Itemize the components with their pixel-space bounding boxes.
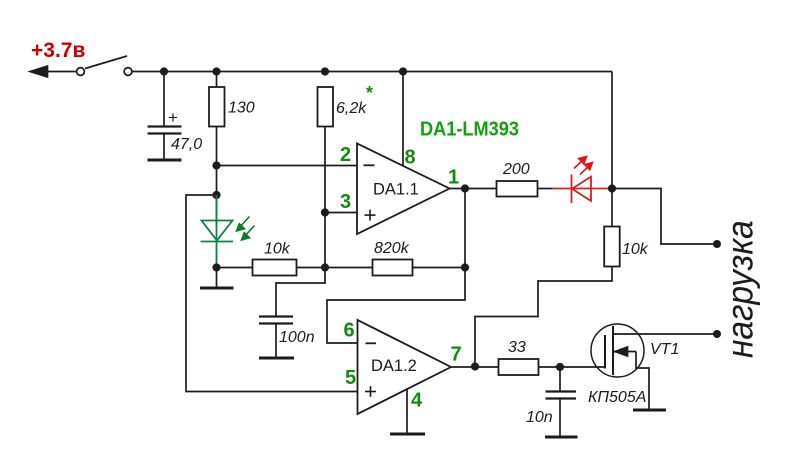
- capacitor C2 100n: [259, 317, 293, 324]
- capacitor C3 10n: [546, 392, 577, 399]
- junction right rail node: [608, 184, 616, 192]
- junction R1 bottom / pin2: [212, 161, 220, 169]
- resistor R5 200: [497, 181, 538, 197]
- resistor R3 10k: [253, 260, 297, 276]
- svg-text:10k: 10k: [622, 241, 649, 258]
- junction R4 output node: [461, 263, 469, 271]
- svg-text:10k: 10k: [264, 241, 291, 258]
- svg-text:нагрузка: нагрузка: [719, 220, 761, 358]
- plus sign pin5: [365, 386, 376, 397]
- wire R7 to gate: [539, 366, 606, 368]
- terminal load 2: [713, 330, 721, 338]
- resistor R1 130: [209, 87, 225, 127]
- resistor R2 6,2k: [318, 87, 334, 127]
- wire pin2 from node: [217, 165, 358, 167]
- plus sign pin3: [365, 210, 376, 221]
- svg-text:+3.7в: +3.7в: [31, 39, 85, 62]
- wire LED bottom to ground: [216, 268, 218, 288]
- capacitor C1 47,0: [148, 127, 182, 134]
- transistor Q1 VT1 MOSFET: [591, 324, 644, 377]
- svg-text:7: 7: [451, 344, 462, 366]
- svg-text:6,2k: 6,2k: [336, 100, 367, 117]
- LED HL1 green (sensor): [201, 195, 234, 268]
- resistor R4 820k: [373, 260, 413, 276]
- junction LED top / pin5 branch: [212, 191, 220, 199]
- svg-text:DA1-LM393: DA1-LM393: [420, 118, 519, 141]
- ground under C3: [545, 436, 578, 439]
- wire output DA1.1: [450, 188, 497, 190]
- svg-text:100n: 100n: [279, 329, 315, 346]
- junction pin3 tap: [321, 208, 329, 216]
- wire LED node to R3: [217, 267, 253, 269]
- mosfet source wire to ground: [636, 352, 649, 410]
- wire top rail: [133, 71, 613, 73]
- svg-text:+: +: [168, 108, 178, 127]
- wire R3 right to R4 left: [297, 267, 373, 269]
- green light arrows into HL1: [237, 217, 255, 241]
- ground under C2: [259, 357, 294, 360]
- wire R1 top lead: [216, 72, 218, 88]
- wire C3 top lead: [559, 367, 561, 391]
- power arrow: [30, 66, 77, 77]
- svg-text:5: 5: [345, 367, 356, 389]
- svg-text:130: 130: [228, 100, 255, 117]
- mosfet drain wire: [613, 333, 716, 335]
- wire output DA1.2: [451, 366, 499, 368]
- ground under HL1: [200, 287, 234, 290]
- resistor R7 33: [499, 359, 539, 375]
- svg-text:2: 2: [340, 144, 351, 166]
- minus sign pin2: [364, 164, 375, 166]
- svg-text:200: 200: [502, 161, 530, 178]
- terminal load 1: [713, 240, 721, 248]
- wire R2 bottom vertical (6,2k to mid node): [324, 127, 326, 268]
- op-amp U1b DA1.2: [358, 320, 452, 414]
- svg-text:DA1.1: DA1.1: [373, 181, 419, 199]
- junction output DA1.1: [461, 184, 469, 192]
- minus sign pin6: [366, 342, 377, 344]
- wire R6 bottom to DA1.2 output node: [475, 267, 612, 367]
- svg-text:8: 8: [405, 147, 416, 169]
- wire pin8 from rail: [402, 72, 404, 166]
- svg-text:VT1: VT1: [650, 341, 679, 358]
- LED HL2 red: [572, 175, 592, 204]
- svg-text:1: 1: [448, 167, 459, 189]
- wire pin4 to ground: [406, 390, 408, 434]
- junction top rail at pin8: [399, 67, 407, 75]
- svg-text:3: 3: [340, 191, 351, 213]
- svg-text:10n: 10n: [526, 409, 553, 426]
- switch SA1: [77, 56, 132, 75]
- ground under VT1: [633, 409, 666, 412]
- wire C1 top lead: [163, 72, 165, 127]
- wire R6 top lead: [611, 189, 613, 227]
- junction top rail at R1: [212, 67, 220, 75]
- resistor R6 10k vertical: [604, 227, 620, 267]
- mosfet source arrow: [614, 347, 636, 356]
- wire output node down to 820k: [464, 189, 466, 268]
- wire R1 bottom to LED branch: [216, 127, 218, 223]
- wire red to LED: [538, 188, 554, 190]
- svg-text:47,0: 47,0: [171, 136, 202, 153]
- red light arrows out of HL2: [574, 157, 593, 175]
- junction output DA1.2: [471, 362, 479, 370]
- junction midrow at x=325: [321, 263, 329, 271]
- wire C3 bottom: [559, 399, 561, 437]
- svg-text:820k: 820k: [374, 240, 410, 257]
- junction gate / C3: [556, 363, 564, 371]
- wire R4 right to output node: [413, 267, 466, 269]
- svg-text:4: 4: [411, 390, 423, 412]
- svg-text:*: *: [366, 83, 373, 103]
- op-amp U1a DA1.1: [357, 144, 450, 235]
- wire pin3: [325, 212, 357, 214]
- wire to load terminal 1: [612, 189, 716, 245]
- ground under C1: [148, 159, 182, 162]
- wire to pin 5 (left, down, right): [186, 195, 358, 392]
- ground under pin4: [390, 433, 425, 436]
- svg-text:DA1.2: DA1.2: [371, 357, 417, 375]
- wire pin6 path from R4 node: [327, 268, 465, 344]
- wire C2 bottom: [275, 324, 277, 358]
- junction top rail at C1: [160, 67, 168, 75]
- svg-text:6: 6: [344, 320, 355, 342]
- svg-text:КП505А: КП505А: [588, 389, 646, 406]
- wire C1 bottom lead: [163, 134, 165, 160]
- junction top rail at R2: [321, 67, 329, 75]
- svg-text:33: 33: [508, 339, 526, 356]
- junction LED bottom: [212, 263, 220, 271]
- wire right rail down: [611, 72, 613, 189]
- wire 100n tap: [276, 268, 325, 317]
